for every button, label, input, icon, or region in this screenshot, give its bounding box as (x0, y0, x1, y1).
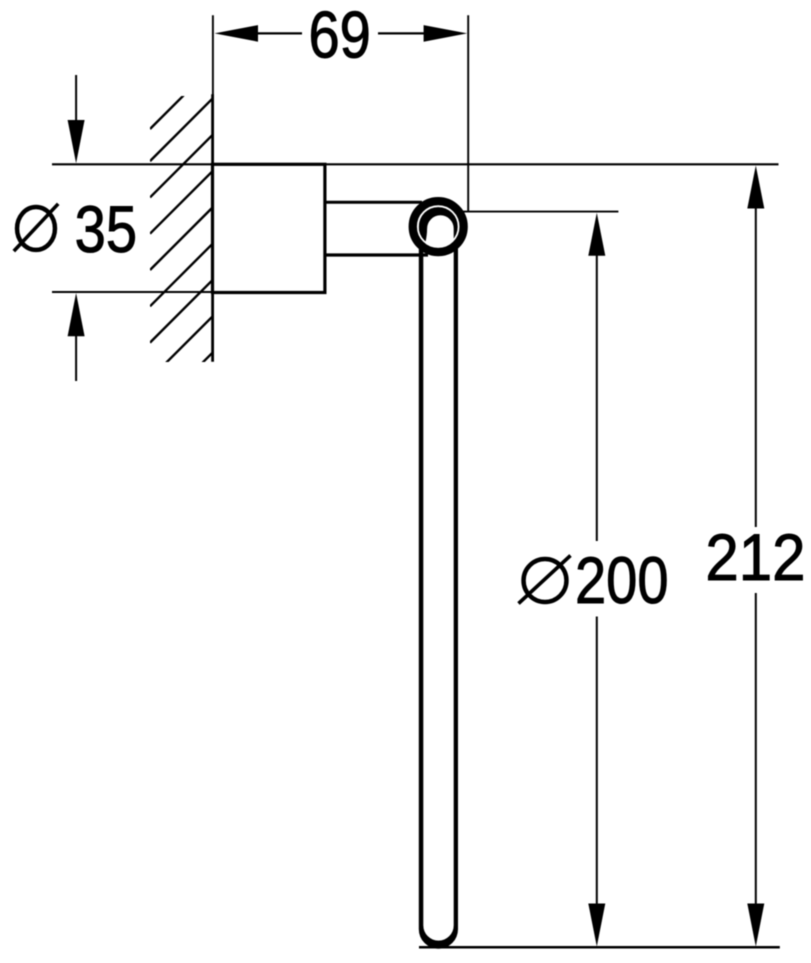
svg-text:212: 212 (705, 521, 805, 594)
svg-text:35: 35 (75, 193, 137, 266)
svg-text:200: 200 (575, 544, 669, 617)
svg-text:69: 69 (308, 0, 370, 72)
